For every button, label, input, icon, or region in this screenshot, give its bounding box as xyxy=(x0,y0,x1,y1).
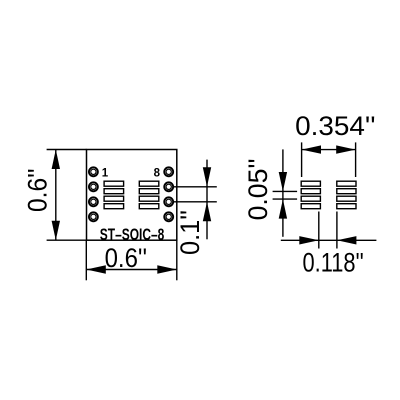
SMD pad R4 xyxy=(139,204,159,209)
dim 0.118: dimension line xyxy=(281,239,377,241)
pad P4 (hole) xyxy=(89,212,98,221)
svg-text:0.6'': 0.6'' xyxy=(105,243,148,273)
pad P2 (hole) xyxy=(89,182,98,191)
detail SMD pad DL2 xyxy=(301,189,320,194)
SMD pad L4 xyxy=(104,204,124,209)
SMD pad R3 xyxy=(139,196,159,201)
dim 0.354: left arrow xyxy=(302,145,321,153)
pad P7 (hole) xyxy=(164,182,173,191)
SMD pad R1 xyxy=(139,181,159,186)
dim 0.6 horizontal: left arrow xyxy=(86,265,106,273)
dim 0.6 vertical: dimension line xyxy=(55,150,57,241)
detail SMD pad DL1 xyxy=(301,181,320,186)
dim 0.354: dimension line xyxy=(302,149,356,151)
dim 0.118: right-pointing arrow xyxy=(299,236,319,244)
svg-text:1: 1 xyxy=(102,167,109,179)
dim 0.05: dimension line xyxy=(282,149,284,236)
svg-text:8: 8 xyxy=(154,167,161,179)
dim 0.1 pitch: down arrow xyxy=(203,167,211,187)
dim 0.118: left-pointing arrow xyxy=(337,236,357,244)
dim 0.6 vertical: down arrow xyxy=(52,221,60,241)
dim 0.6 vertical: top extension line xyxy=(47,149,87,151)
pad P6 (hole) xyxy=(164,197,173,206)
dim 0.1 pitch: upper extension line xyxy=(173,186,217,188)
pad P5 (hole) xyxy=(164,212,173,221)
SMD pad L2 xyxy=(104,189,124,194)
pad P8 (hole) xyxy=(164,167,173,176)
dim 0.6 horizontal: right extension line xyxy=(176,240,178,280)
detail SMD pad DR1 xyxy=(337,181,356,186)
dim 0.118: right extension line xyxy=(336,212,338,249)
dim 0.05: lower extension tick xyxy=(273,198,298,200)
dim 0.1 pitch: dimension line xyxy=(206,160,208,240)
dim 0.6 vertical: bottom extension line xyxy=(47,239,87,241)
dim 0.354: right extension line xyxy=(355,142,357,177)
svg-text:ST–SOIC–8: ST–SOIC–8 xyxy=(100,226,165,244)
SMD pad L1 xyxy=(104,181,124,186)
detail SMD pad DR4 xyxy=(337,204,356,209)
dim 0.1 pitch: lower extension line xyxy=(173,201,217,203)
dim 0.354: left extension line xyxy=(301,142,303,177)
detail SMD pad DL3 xyxy=(301,196,320,201)
svg-text:0.1'': 0.1'' xyxy=(175,210,205,255)
dim 0.6 horizontal: left extension line xyxy=(85,240,87,280)
SMD pad L3 xyxy=(104,196,124,201)
dim 0.6 vertical: up arrow xyxy=(52,150,60,170)
pad P1 (hole) xyxy=(89,167,98,176)
detail SMD pad DR2 xyxy=(337,189,356,194)
dim 0.05: up arrow xyxy=(279,199,287,219)
detail SMD pad DR3 xyxy=(337,196,356,201)
dim 0.1 pitch: up arrow xyxy=(203,202,211,222)
dim 0.118: left extension line xyxy=(318,212,320,249)
detail SMD pad DL4 xyxy=(301,204,320,209)
svg-text:0.05'': 0.05'' xyxy=(243,158,273,220)
svg-text:0.6'': 0.6'' xyxy=(23,169,53,213)
SMD pad R2 xyxy=(139,189,159,194)
dim 0.05: upper extension tick xyxy=(273,190,298,192)
dim 0.6 horizontal: right arrow xyxy=(157,265,177,273)
svg-text:0.118'': 0.118'' xyxy=(303,247,364,277)
dim 0.354: right arrow xyxy=(336,145,355,153)
pad P3 (hole) xyxy=(89,197,98,206)
dim 0.05: down arrow xyxy=(279,172,287,191)
board outline ST-SOIC-8 adapter xyxy=(87,150,177,241)
svg-text:0.354'': 0.354'' xyxy=(295,111,376,141)
dim 0.6 horizontal: dimension line xyxy=(86,269,177,271)
